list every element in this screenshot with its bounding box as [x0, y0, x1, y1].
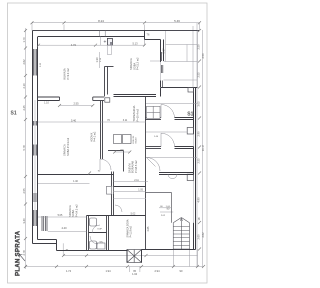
- svg-text:5.40: 5.40: [71, 118, 77, 122]
- svg-text:1.50: 1.50: [100, 57, 102, 62]
- svg-text:PLAN SPRATA: PLAN SPRATA: [15, 230, 22, 276]
- svg-text:2.50: 2.50: [201, 53, 205, 59]
- svg-text:90: 90: [98, 171, 101, 173]
- svg-text:2.55: 2.55: [22, 188, 26, 194]
- svg-text:P=11.9 m2: P=11.9 m2: [130, 225, 133, 237]
- svg-text:5.46: 5.46: [174, 19, 180, 23]
- svg-text:KUP.: KUP.: [98, 229, 103, 231]
- svg-text:P=11.2 m2: P=11.2 m2: [136, 57, 140, 70]
- svg-text:4.76: 4.76: [71, 43, 77, 47]
- svg-text:10.17: 10.17: [201, 144, 205, 151]
- svg-text:2.90: 2.90: [196, 131, 200, 137]
- svg-text:1.94: 1.94: [105, 269, 111, 273]
- svg-text:76: 76: [147, 33, 150, 37]
- svg-text:1.10: 1.10: [44, 102, 49, 105]
- svg-text:3.05: 3.05: [196, 101, 200, 107]
- svg-text:2.62: 2.62: [40, 62, 42, 67]
- svg-text:3.11: 3.11: [123, 119, 128, 122]
- svg-text:P=14.2 m2: P=14.2 m2: [74, 204, 78, 217]
- svg-text:S1: S1: [187, 111, 193, 117]
- svg-text:1.70: 1.70: [22, 37, 26, 43]
- svg-text:5.05: 5.05: [58, 214, 63, 217]
- svg-text:60x60: 60x60: [135, 137, 137, 144]
- svg-text:3.17: 3.17: [162, 48, 166, 54]
- svg-text:2.94: 2.94: [154, 269, 160, 273]
- svg-text:1.30: 1.30: [95, 57, 99, 63]
- svg-text:80: 80: [160, 206, 163, 208]
- svg-text:2.62: 2.62: [22, 59, 26, 65]
- svg-text:P=10.4 m2: P=10.4 m2: [135, 108, 139, 121]
- svg-text:SOBA P=13 m2: SOBA P=13 m2: [66, 137, 70, 156]
- svg-text:2.55: 2.55: [73, 101, 79, 105]
- svg-text:5.13: 5.13: [132, 41, 138, 45]
- svg-text:5.02: 5.02: [131, 212, 136, 215]
- svg-text:P=9.3 m2: P=9.3 m2: [66, 68, 70, 80]
- svg-text:2.62: 2.62: [201, 232, 205, 238]
- svg-text:S1: S1: [11, 111, 17, 117]
- svg-text:2.25: 2.25: [22, 105, 26, 111]
- svg-text:2.55: 2.55: [196, 72, 200, 78]
- svg-text:2.50: 2.50: [196, 44, 200, 50]
- svg-text:2.62: 2.62: [161, 215, 166, 217]
- svg-text:2.11: 2.11: [134, 179, 139, 182]
- svg-text:2.60: 2.60: [196, 234, 200, 240]
- svg-text:1.05: 1.05: [138, 189, 143, 192]
- svg-text:1.74: 1.74: [66, 269, 72, 273]
- svg-text:3.40: 3.40: [22, 218, 26, 224]
- svg-text:18: 18: [197, 217, 201, 220]
- svg-text:1.40: 1.40: [73, 180, 78, 183]
- svg-text:4.90: 4.90: [196, 197, 200, 203]
- svg-text:4.40: 4.40: [61, 226, 67, 230]
- svg-text:1.40: 1.40: [154, 136, 159, 138]
- svg-text:2.10: 2.10: [22, 83, 26, 89]
- svg-text:5.78: 5.78: [22, 145, 26, 151]
- svg-text:P=18.5 m2: P=18.5 m2: [134, 160, 138, 173]
- svg-text:76: 76: [107, 119, 110, 122]
- svg-text:P=4.2 m2: P=4.2 m2: [94, 131, 97, 142]
- svg-text:1.00: 1.00: [166, 206, 171, 208]
- svg-text:2.85: 2.85: [147, 226, 150, 231]
- svg-text:8.24: 8.24: [98, 19, 104, 23]
- svg-text:90: 90: [180, 269, 183, 273]
- svg-text:2.55: 2.55: [196, 158, 200, 164]
- svg-text:WC: WC: [100, 242, 104, 244]
